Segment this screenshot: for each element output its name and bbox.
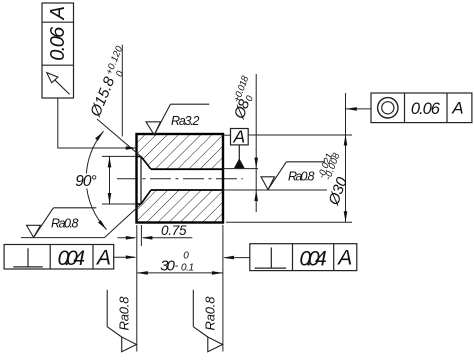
svg-text:A: A [336,247,352,270]
svg-text:0.04: 0.04 [58,247,86,270]
svg-text:0.06: 0.06 [411,100,441,118]
svg-text:0.06: 0.06 [47,26,69,61]
svg-text:Ra0.8: Ra0.8 [51,216,79,230]
svg-text:A: A [451,98,463,117]
svg-text:A: A [47,6,69,20]
svg-text:A: A [95,246,111,269]
svg-text:90°: 90° [75,173,97,190]
svg-text:Ra0.8: Ra0.8 [288,169,315,183]
svg-text:0: 0 [183,251,189,262]
svg-text:0.04: 0.04 [299,247,327,270]
svg-text:0.1: 0.1 [181,262,194,273]
svg-text:-: - [175,260,179,272]
svg-text:Ra0.8: Ra0.8 [117,296,132,331]
svg-text:Ra3.2: Ra3.2 [171,114,200,128]
svg-text:Ra0.8: Ra0.8 [203,296,218,331]
svg-text:A: A [232,127,245,147]
svg-text:0.75: 0.75 [161,223,187,238]
svg-text:30: 30 [160,258,175,275]
